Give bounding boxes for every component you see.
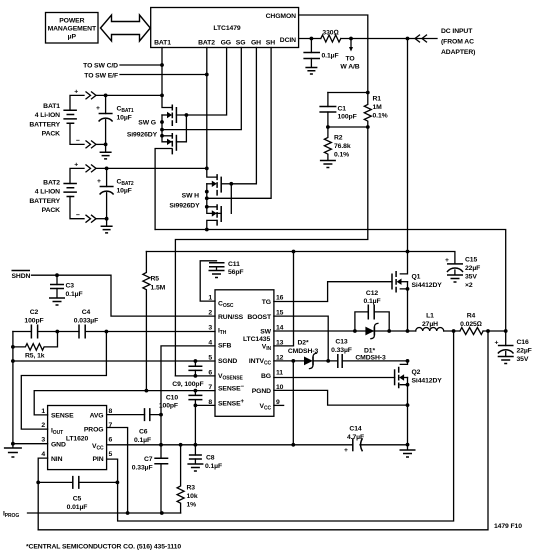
transistor Q1 Si4412DY [392, 252, 442, 332]
svg-text:+: + [74, 89, 78, 96]
svg-text:R1: R1 [373, 96, 382, 103]
svg-text:L1: L1 [426, 313, 434, 320]
diode D1 CMDSH-3 schottky [365, 327, 374, 336]
resistor R4 0.025ohm [460, 328, 483, 335]
svg-text:100pF: 100pF [159, 403, 178, 410]
capacitor C13 0.33uF [338, 354, 342, 368]
inductor L1 27uH [416, 328, 444, 331]
wire battery common output rail [155, 230, 506, 332]
svg-text:SENSE: SENSE [51, 413, 74, 420]
svg-text:Si4412DY: Si4412DY [412, 282, 443, 289]
svg-text:0.33µF: 0.33µF [331, 347, 352, 354]
svg-text:100pF: 100pF [24, 318, 43, 325]
capacitor C1 100pF [327, 93, 329, 107]
wire PIN pin5 down and right to R4 left [107, 331, 454, 521]
wire DC rail down [407, 39, 409, 252]
wire BG pin11 to Q2 gate [274, 377, 395, 379]
wire IOUT to ITH node [21, 332, 106, 430]
svg-text:SHDN: SHDN [12, 273, 31, 280]
wire DCIN output [299, 38, 437, 40]
wire SGND pin5 [13, 360, 215, 362]
svg-text:Si9926DY: Si9926DY [169, 203, 200, 210]
svg-text:1.5M: 1.5M [151, 285, 166, 292]
svg-text:Q2: Q2 [412, 369, 421, 376]
wire TO SW E/F [120, 74, 207, 76]
svg-text:C14: C14 [349, 426, 361, 433]
svg-text:C1: C1 [338, 106, 347, 113]
svg-text:ADAPTER): ADAPTER) [441, 49, 475, 56]
capacitor C12 0.1uF boost [355, 312, 389, 331]
SW H drain down wire [207, 220, 217, 229]
svg-text:56pF: 56pF [228, 269, 243, 276]
svg-text:3: 3 [41, 437, 45, 444]
capacitor C9 100pF [194, 361, 196, 376]
SW G upper FET channel [171, 105, 173, 127]
svg-text:SH: SH [266, 40, 275, 47]
wire SENSE+ pin8 [195, 404, 215, 406]
svg-text:C13: C13 [335, 339, 347, 346]
svg-text:22µF: 22µF [465, 265, 480, 272]
ground at DCIN cap [305, 68, 317, 75]
wire VOSENSE pin6 [175, 375, 215, 377]
capacitor C6 0.1uF [145, 408, 150, 421]
node dcin bypass [310, 37, 314, 41]
svg-text:Q1: Q1 [412, 274, 421, 281]
wire SFB column [161, 346, 215, 445]
svg-text:C3: C3 [66, 283, 75, 290]
svg-text:SW H: SW H [182, 193, 200, 200]
ground BAT1 [105, 144, 107, 152]
svg-text:+: + [96, 105, 100, 112]
svg-text:SFB: SFB [218, 343, 231, 350]
svg-text:6: 6 [109, 437, 113, 444]
stub VCC pin9 [274, 404, 284, 406]
svg-text:4 Li-ION: 4 Li-ION [35, 189, 60, 196]
capacitor C5 0.01uF [38, 481, 117, 483]
ground at C14 [407, 445, 409, 450]
resistor 330ohm [321, 35, 341, 42]
wire SENSE- pin7 [34, 391, 215, 415]
svg-text:LTC1479: LTC1479 [213, 25, 240, 32]
svg-text:C9, 100pF: C9, 100pF [172, 381, 203, 388]
svg-text:0.1µF: 0.1µF [66, 291, 83, 298]
svg-text:TO SW C/D: TO SW C/D [83, 63, 118, 70]
chevrons BAT1 plus lead [86, 92, 96, 99]
svg-text:BATTERY: BATTERY [29, 121, 60, 128]
svg-text:0.33µF: 0.33µF [132, 465, 153, 472]
resistor R2 76.8k 0.1% [324, 127, 331, 160]
svg-text:W A/B: W A/B [340, 64, 359, 71]
svg-text:C6: C6 [139, 429, 148, 436]
svg-text:0.1µF: 0.1µF [363, 298, 380, 305]
op-amp/controller U1 LTC1479 box [151, 8, 299, 48]
SW H upper FET gate bar [220, 177, 222, 193]
wire bottom rail to R4 right [38, 331, 488, 530]
svg-text:3: 3 [208, 325, 212, 332]
svg-text:AVG: AVG [90, 413, 104, 420]
wire GND pin3 to ground [13, 443, 48, 445]
svg-text:C12: C12 [366, 290, 378, 297]
wire divider top link [328, 92, 368, 94]
resistor R1 1M 0.1% [364, 93, 371, 128]
wire R4 to output [483, 330, 506, 332]
capacitor C8 0.1uF [194, 445, 196, 455]
SW H lower FET body arrow [212, 210, 217, 216]
wire divider mid link [328, 126, 368, 128]
wire NIN pin4 down to bottom rail [38, 458, 47, 530]
svg-text:BAT2: BAT2 [198, 40, 215, 47]
svg-text:1M: 1M [373, 104, 383, 111]
svg-text:+: + [445, 257, 449, 264]
bidirectional bus arrow between uP and LTC1479 [101, 15, 151, 41]
svg-text:+: + [344, 447, 348, 454]
chevrons DC input [415, 35, 427, 42]
capacitor C11 56pF [209, 263, 225, 267]
SW G upper FET gate bar [175, 107, 177, 123]
wire INTVCC down to LT1620 VCC rail [292, 361, 294, 445]
chevrons BAT2 plus lead [86, 165, 96, 172]
svg-text:Si4412DY: Si4412DY [412, 378, 443, 385]
svg-text:Si9926DY: Si9926DY [127, 132, 158, 139]
wire PROG pin7 down to IPROG [107, 428, 128, 514]
SW G gate tie wire to GG [176, 115, 186, 142]
svg-text:C10: C10 [166, 395, 178, 402]
svg-text:TO SW E/F: TO SW E/F [84, 73, 118, 80]
ground BAT2 [106, 219, 108, 226]
svg-text:100pF: 100pF [338, 114, 357, 121]
wire BAT2 minus to ground node [97, 218, 107, 220]
svg-text:BATTERY: BATTERY [29, 198, 60, 205]
svg-text:×2: ×2 [465, 282, 473, 289]
wire BAT1 pin column from LTC1479 [162, 48, 172, 108]
wire INTVCC pin12 / D2 / C13 to SW rail [274, 360, 408, 362]
svg-text:35V: 35V [465, 274, 477, 281]
svg-text:PACK: PACK [42, 207, 61, 214]
svg-text:NIN: NIN [51, 456, 63, 463]
wire IPROG [28, 512, 181, 514]
svg-text:C11: C11 [228, 261, 240, 268]
svg-text:D2*: D2* [297, 340, 308, 347]
svg-text:PGND: PGND [252, 388, 271, 395]
SW G lower FET body arrow [167, 139, 172, 145]
capacitor 0.1uF at DCIN [310, 39, 312, 53]
svg-text:SGND: SGND [218, 358, 237, 365]
wire BAT1+ to node and BAT1 pin column [97, 94, 163, 96]
power management microprocessor box [46, 13, 99, 44]
SW G middle wire to SG [162, 48, 241, 130]
svg-text:10k: 10k [187, 493, 198, 500]
svg-text:DCIN: DCIN [280, 37, 296, 44]
SW G lower FET channel [171, 133, 173, 154]
svg-text:0.1µF: 0.1µF [134, 437, 151, 444]
svg-text:LT1620: LT1620 [66, 436, 89, 443]
chevrons BAT1 minus lead [86, 141, 96, 148]
svg-text:C2: C2 [30, 309, 39, 316]
svg-text:27µH: 27µH [422, 321, 438, 328]
SW H gate tie wire to GH [221, 183, 231, 185]
svg-text:1: 1 [41, 408, 45, 415]
transistor SW H Si9926DY dual MOSFET [169, 48, 271, 230]
SW H middle wire to SH [207, 48, 271, 199]
svg-text:LTC1435: LTC1435 [243, 336, 270, 343]
svg-text:CHGMON: CHGMON [266, 13, 297, 20]
battery BAT1 4 Li-ION pack [29, 89, 84, 145]
svg-text:C16: C16 [517, 339, 529, 346]
wire TG pin16 to Q1 gate [274, 282, 392, 302]
svg-text:RUN/SS: RUN/SS [218, 314, 244, 321]
wire BAT1 minus to ground node [97, 143, 106, 145]
battery BAT2 4 Li-ION pack [29, 162, 84, 219]
svg-text:BAT1: BAT1 [154, 40, 171, 47]
wire CHGMON to divider [299, 15, 368, 93]
svg-text:BOOST: BOOST [247, 314, 272, 321]
svg-text:4: 4 [41, 451, 45, 458]
svg-text:0.1%: 0.1% [373, 113, 388, 120]
node divider top [366, 91, 370, 95]
svg-text:POWER: POWER [59, 18, 84, 25]
svg-text:GND: GND [51, 442, 66, 449]
svg-text:SW G: SW G [138, 120, 156, 127]
svg-text:−: − [76, 138, 80, 145]
wire divider mid to VOSENSE feedback [175, 127, 367, 376]
svg-text:DC INPUT: DC INPUT [441, 28, 473, 35]
svg-text:CMDSH-3: CMDSH-3 [288, 348, 319, 355]
wire L1 to R4 [444, 330, 460, 332]
wire BAT2 pin column from LTC1479 [207, 48, 217, 178]
svg-text:GH: GH [251, 40, 261, 47]
SW H upper FET body arrow [207, 183, 212, 185]
svg-text:R2: R2 [334, 135, 343, 142]
svg-text:2: 2 [41, 422, 45, 429]
svg-text:C15: C15 [465, 257, 477, 264]
svg-text:10µF: 10µF [117, 115, 132, 122]
capacitor C3 0.1uF [56, 275, 58, 284]
svg-text:C5: C5 [73, 496, 82, 503]
transistor SW G Si9926DY dual MOSFET [127, 48, 241, 230]
svg-text:C4: C4 [82, 309, 91, 316]
svg-text:PROG: PROG [84, 427, 104, 434]
svg-text:R5: R5 [151, 276, 160, 283]
wire SW pin14 to output node [274, 330, 416, 332]
svg-text:MANAGEMENT: MANAGEMENT [48, 26, 97, 33]
wire AVG pin8 with C6 [107, 414, 161, 416]
resistor R5 1.5M pullup and sense column [143, 252, 150, 391]
svg-text:0.01µF: 0.01µF [67, 504, 88, 511]
ground column from ITH network to LT1620 GND [12, 332, 14, 444]
svg-text:−: − [76, 212, 80, 219]
svg-text:BAT2: BAT2 [43, 180, 60, 187]
wire pin1 COSC to C11 [200, 261, 216, 301]
svg-text:22µF: 22µF [517, 348, 532, 355]
wire VCC rail LT1620 pin6 to C14 [107, 444, 352, 446]
svg-text:4 Li-ION: 4 Li-ION [35, 112, 60, 119]
svg-text:R3: R3 [187, 485, 196, 492]
capacitor C2 100pF [31, 325, 37, 339]
svg-text:BG: BG [261, 373, 271, 380]
svg-text:+: + [74, 162, 78, 169]
SW H lower FET gate bar [220, 206, 222, 222]
svg-text:10µF: 10µF [117, 188, 132, 195]
wire SENSE+ column down to VCC rail [194, 405, 196, 444]
resistor R5 1k parallel [13, 332, 58, 351]
svg-text:R5, 1k: R5, 1k [25, 353, 45, 360]
wire SHDN to RUN/SS [32, 275, 216, 316]
stub TO W A/B with arrow [350, 39, 352, 48]
svg-text:1%: 1% [187, 502, 197, 509]
SW H upper FET channel [216, 174, 218, 196]
svg-text:TG: TG [262, 299, 271, 306]
wire TO SW C/D [120, 64, 162, 66]
capacitor C7 0.33uF [160, 445, 162, 458]
svg-text:0.1µF: 0.1µF [205, 463, 222, 470]
svg-text:16: 16 [276, 295, 284, 302]
svg-text:0.033µF: 0.033µF [74, 318, 98, 325]
svg-text:C7: C7 [144, 456, 153, 463]
svg-text:SW: SW [260, 329, 271, 336]
svg-text:(FROM AC: (FROM AC [441, 39, 474, 46]
controller U3 LT1620 box [41, 406, 112, 470]
ground at R2 [320, 161, 336, 168]
wire PGND pin10 [274, 390, 408, 405]
svg-text:GG: GG [221, 40, 231, 47]
node TO W A/B [349, 37, 353, 41]
svg-text:C8: C8 [206, 455, 215, 462]
svg-text:1479 F10: 1479 F10 [494, 523, 522, 530]
SW G lower FET gate bar [175, 135, 177, 151]
svg-text:8: 8 [109, 408, 113, 415]
svg-text:BAT1: BAT1 [43, 103, 60, 110]
wire BOOST pin15 [274, 316, 328, 361]
svg-text:TO: TO [345, 56, 354, 63]
wire VIN rail [146, 252, 455, 264]
svg-text:330Ω: 330Ω [322, 30, 338, 37]
svg-text:µP: µP [68, 34, 77, 41]
svg-text:35V: 35V [517, 356, 529, 363]
diode D2 CMDSH-3 schottky [304, 357, 313, 366]
wire VIN pin13 branch [274, 252, 294, 346]
svg-text:4.7µF: 4.7µF [347, 434, 364, 441]
wire ITH compensation network [13, 331, 215, 333]
SW G upper FET body arrow [162, 114, 167, 116]
wire BAT2+ to SW H column [97, 167, 207, 169]
SW G common source column [162, 115, 172, 142]
svg-text:5: 5 [109, 451, 113, 458]
svg-text:SG: SG [236, 40, 246, 47]
svg-text:*CENTRAL SEMICONDUCTOR CO. (51: *CENTRAL SEMICONDUCTOR CO. (516) 435-111… [26, 544, 181, 550]
node DC input junction [406, 37, 410, 41]
capacitor C10 100pF [194, 391, 196, 406]
chevrons BAT2 minus lead [86, 215, 96, 222]
svg-text:PACK: PACK [42, 131, 61, 138]
capacitor C4 0.033uF [79, 325, 85, 339]
svg-text:+: + [97, 178, 101, 185]
svg-text:PIN: PIN [92, 456, 103, 463]
ground at C3 [49, 298, 65, 305]
svg-text:R4: R4 [467, 313, 476, 320]
ground LT1620 [12, 444, 14, 448]
svg-text:0.1µF: 0.1µF [322, 53, 339, 60]
SW H common source column [207, 184, 221, 214]
SW G drain down wire [155, 149, 172, 230]
SW H lower FET channel [216, 204, 218, 225]
svg-text:0.025Ω: 0.025Ω [460, 321, 482, 328]
svg-text:76.8k: 76.8k [334, 143, 351, 150]
controller U2 LTC1435 box [208, 290, 283, 417]
transistor Q2 Si4412DY [395, 361, 443, 445]
svg-text:0.1%: 0.1% [334, 152, 349, 159]
resistor R3 10k 1% [177, 445, 184, 513]
svg-text:11: 11 [276, 369, 283, 376]
